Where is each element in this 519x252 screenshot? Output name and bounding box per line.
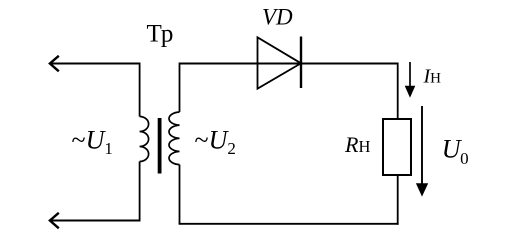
transformer T1 secondary winding [169, 112, 179, 165]
svg-text:U0: U0 [442, 135, 469, 169]
current arrow Iн [405, 62, 416, 98]
wire secondary bottom vertical [179, 165, 181, 224]
svg-text:IН: IН [423, 66, 442, 88]
transformer T1 primary winding [140, 117, 149, 162]
voltage arrow U0 [416, 106, 428, 197]
resistor Rн [383, 119, 411, 175]
svg-text:Тр: Тр [147, 21, 174, 48]
wire secondary top horizontal [180, 63, 398, 65]
wire secondary bottom horizontal [179, 223, 399, 225]
wire primary left vertical lower [139, 162, 141, 221]
wire right vertical lower [397, 175, 399, 225]
svg-text:RН: RН [344, 132, 370, 157]
wire right vertical upper [397, 63, 399, 120]
input terminal arrow bottom-left [50, 214, 58, 228]
svg-text:~U1: ~U1 [72, 126, 113, 159]
wire primary top [50, 63, 140, 65]
wire primary bottom [50, 220, 141, 222]
diode VD triangle [258, 37, 302, 88]
input terminal arrow top-left [50, 57, 58, 71]
wire primary left vertical [139, 63, 141, 117]
svg-text:~U2: ~U2 [195, 126, 236, 159]
diode VD cathode bar [300, 37, 302, 89]
wire secondary top vertical [179, 63, 181, 113]
transformer core [158, 118, 162, 174]
svg-text:VD: VD [262, 4, 293, 29]
